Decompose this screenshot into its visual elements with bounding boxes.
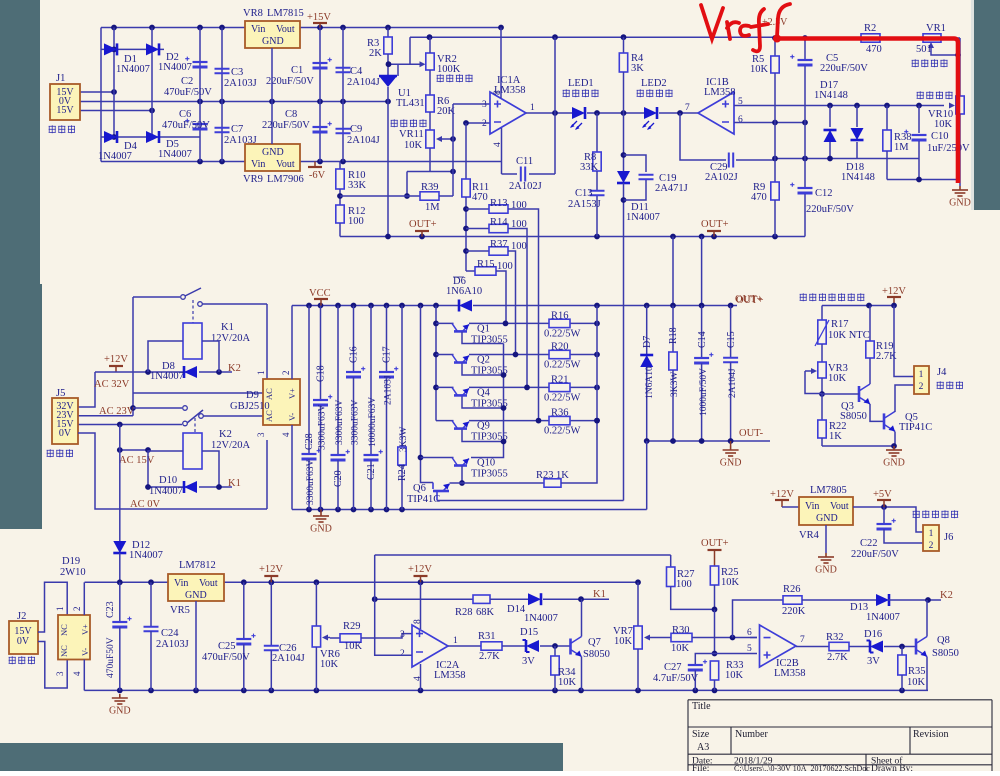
wire Q5 collector to J4 bbox=[895, 385, 914, 412]
svg-text:VR8: VR8 bbox=[243, 8, 263, 19]
resistor R22 bbox=[821, 394, 823, 420]
label voltage-set (VR1) bbox=[912, 59, 919, 67]
svg-text:10000uF63V: 10000uF63V bbox=[368, 397, 378, 447]
resistor R20 bbox=[549, 350, 570, 358]
resistor R23 bbox=[544, 479, 561, 487]
ground bbox=[886, 446, 902, 456]
op-amp IC1B LM358 bbox=[698, 92, 734, 134]
resistor R21 bbox=[549, 383, 570, 391]
svg-text:1N4007: 1N4007 bbox=[116, 64, 150, 75]
svg-text:0.22/5W: 0.22/5W bbox=[544, 426, 581, 437]
zener D16 bbox=[870, 641, 883, 653]
svg-text:R24: R24 bbox=[397, 464, 408, 481]
resistor R18 bbox=[672, 306, 674, 353]
resistor R33 bbox=[710, 661, 718, 680]
svg-text:2: 2 bbox=[482, 119, 487, 129]
svg-text:2A102J: 2A102J bbox=[705, 172, 738, 183]
wire IC1A pin3 bbox=[453, 103, 490, 105]
svg-text:V-: V- bbox=[80, 648, 90, 656]
title block bbox=[688, 700, 992, 771]
svg-text:+15V: +15V bbox=[307, 12, 331, 23]
regulator VR5 LM7812 bbox=[168, 574, 224, 601]
resistor R9 bbox=[774, 159, 776, 183]
svg-text:1: 1 bbox=[453, 636, 458, 646]
svg-text:10K: 10K bbox=[558, 677, 577, 688]
capacitor C3 bbox=[215, 69, 230, 73]
power -6V bbox=[314, 162, 316, 168]
svg-text:1: 1 bbox=[55, 607, 65, 612]
capacitor C19 bbox=[624, 155, 647, 172]
svg-text:C3: C3 bbox=[231, 67, 243, 78]
svg-text:C14: C14 bbox=[697, 331, 708, 348]
svg-text:R16: R16 bbox=[551, 310, 569, 321]
relay K1 coil bbox=[183, 323, 202, 359]
wire IC1B pin5 row bbox=[734, 105, 944, 107]
wire VR3 wiper bbox=[805, 370, 811, 372]
transistor Q4 TIP3055 bbox=[452, 387, 458, 395]
wire D9 pin3 bbox=[266, 440, 268, 509]
wire IC1A output bbox=[526, 112, 572, 114]
capacitor C27 bbox=[688, 664, 703, 666]
capacitor C26 bbox=[270, 582, 272, 645]
wire J2 15V bracket bbox=[38, 582, 67, 632]
resistor R24 bbox=[401, 306, 403, 448]
wire J1 pin3 bbox=[80, 110, 152, 112]
svg-text:S8050: S8050 bbox=[932, 648, 959, 659]
connector J5 bbox=[52, 398, 78, 444]
svg-text:C1: C1 bbox=[291, 65, 303, 76]
diode D2 bbox=[146, 43, 159, 55]
power OUT+ bbox=[707, 230, 721, 232]
svg-text:C2: C2 bbox=[181, 76, 193, 87]
wire D1-D4 column bbox=[113, 28, 115, 138]
transistor Q1 TIP3055 bbox=[452, 323, 458, 331]
potentiometer VR11 bbox=[426, 130, 434, 148]
capacitor C19 bbox=[639, 175, 654, 179]
svg-text:AC 15V: AC 15V bbox=[119, 455, 155, 466]
wire VR10 wiper bbox=[949, 103, 955, 109]
svg-text:VR11: VR11 bbox=[399, 129, 424, 140]
wire VR11 bottom elbow bbox=[429, 148, 431, 172]
capacitor C1 bbox=[319, 28, 321, 102]
svg-text:C21: C21 bbox=[366, 463, 377, 480]
diode D11 bbox=[617, 171, 630, 183]
capacitor C6 bbox=[193, 123, 208, 125]
svg-text:2A104J: 2A104J bbox=[347, 77, 380, 88]
svg-text:OUT+: OUT+ bbox=[701, 538, 729, 549]
svg-text:Vin: Vin bbox=[805, 501, 819, 512]
svg-text:3300uF63V: 3300uF63V bbox=[335, 399, 345, 445]
potentiometer VR2 bbox=[426, 53, 434, 70]
svg-text:K2: K2 bbox=[219, 429, 232, 440]
wire VR5 gnd bbox=[195, 601, 197, 690]
svg-text:3V: 3V bbox=[522, 656, 535, 667]
relay K2 coil bbox=[183, 433, 202, 469]
resistor R38 bbox=[886, 106, 888, 131]
svg-text:LED1: LED1 bbox=[568, 78, 594, 89]
relay K1 switch bbox=[181, 295, 186, 300]
capacitor C5 bbox=[804, 38, 806, 60]
wire D19 pin4 bbox=[83, 660, 85, 691]
svg-text:R23: R23 bbox=[536, 470, 554, 481]
svg-text:LM358: LM358 bbox=[434, 670, 466, 681]
svg-text:Vin: Vin bbox=[251, 24, 265, 35]
wire J5 15V bbox=[78, 424, 182, 426]
svg-text:TIP41C: TIP41C bbox=[899, 422, 932, 433]
svg-text:OUT+: OUT+ bbox=[701, 219, 729, 230]
wire U1 anode to OUT+ bbox=[387, 87, 389, 237]
svg-text:100: 100 bbox=[676, 579, 692, 590]
thermistor R17 bbox=[821, 306, 823, 321]
op-amp IC2B LM358 bbox=[760, 625, 797, 667]
svg-text:1K: 1K bbox=[829, 431, 842, 442]
svg-text:GND: GND bbox=[720, 458, 742, 469]
wire J4 pin1 bbox=[894, 306, 914, 377]
resistor R32 bbox=[829, 642, 849, 650]
svg-text:R29: R29 bbox=[343, 621, 361, 632]
svg-text:10K: 10K bbox=[404, 140, 423, 151]
svg-text:1N4007: 1N4007 bbox=[149, 486, 183, 497]
wire J5 0V path bbox=[78, 433, 267, 509]
wire VCC drop to collectors bbox=[435, 306, 437, 421]
potentiometer VR6 bbox=[315, 582, 317, 626]
wire D12 column bbox=[119, 425, 121, 542]
svg-text:100: 100 bbox=[511, 200, 527, 211]
capacitor C2 bbox=[199, 28, 201, 102]
svg-text:3K3W: 3K3W bbox=[670, 372, 680, 397]
svg-text:R20: R20 bbox=[551, 342, 569, 353]
svg-text:220uF/50V: 220uF/50V bbox=[820, 63, 868, 74]
wire R5 bottom bbox=[774, 123, 776, 159]
capacitor C22 bbox=[883, 507, 885, 524]
svg-text:2: 2 bbox=[400, 649, 405, 659]
capacitor C13 bbox=[596, 171, 598, 190]
svg-text:C18: C18 bbox=[316, 365, 327, 382]
rail OUT- bbox=[647, 440, 770, 442]
wire J5 23V bbox=[78, 415, 133, 417]
wire VR11 wiper bbox=[441, 138, 453, 140]
capacitor C17 bbox=[386, 306, 388, 373]
svg-text:1N4007: 1N4007 bbox=[129, 550, 163, 561]
svg-text:1: 1 bbox=[929, 529, 934, 539]
capacitor C22 bbox=[877, 523, 892, 525]
svg-text:10K NTC: 10K NTC bbox=[828, 330, 870, 341]
wire AC32V column bbox=[132, 297, 134, 416]
svg-text:GND: GND bbox=[949, 198, 971, 209]
svg-text:Title: Title bbox=[692, 701, 711, 712]
label transformer (J1) bbox=[49, 125, 56, 133]
wire relay D10 row bbox=[148, 486, 186, 488]
svg-text:220K: 220K bbox=[782, 606, 806, 617]
svg-text:C8: C8 bbox=[285, 109, 297, 120]
svg-text:1: 1 bbox=[530, 103, 535, 113]
svg-text:10K: 10K bbox=[344, 641, 363, 652]
svg-text:2: 2 bbox=[281, 371, 291, 376]
power +12V VR5 out bbox=[270, 576, 272, 582]
svg-text:-6V: -6V bbox=[309, 170, 326, 181]
svg-text:33K: 33K bbox=[348, 180, 367, 191]
svg-text:100K: 100K bbox=[437, 64, 461, 75]
resistor R8 bbox=[596, 113, 598, 152]
svg-text:D9: D9 bbox=[246, 390, 259, 401]
capacitor C7 bbox=[215, 128, 230, 132]
capacitor C28 bbox=[308, 306, 310, 455]
svg-text:Q10: Q10 bbox=[477, 458, 495, 469]
resistor R5 bbox=[774, 38, 776, 56]
ground bbox=[313, 512, 329, 522]
wire IC2A pin2 path bbox=[375, 599, 412, 655]
wire J1 pin1 bbox=[80, 91, 114, 93]
wire VR1 wiper bbox=[931, 47, 957, 55]
svg-text:15V: 15V bbox=[56, 105, 74, 116]
label fan (J4) bbox=[937, 381, 944, 389]
wire IC2B output bbox=[796, 646, 829, 648]
capacitor C11 bbox=[521, 167, 525, 182]
wire Q10 base bbox=[461, 466, 463, 483]
svg-text:2W10: 2W10 bbox=[60, 567, 86, 578]
svg-text:C22: C22 bbox=[860, 538, 878, 549]
capacitor C7 bbox=[221, 102, 223, 162]
svg-text:100: 100 bbox=[497, 261, 513, 272]
resistor R3 bbox=[387, 28, 389, 38]
resistor R2 bbox=[861, 34, 880, 42]
svg-text:C13: C13 bbox=[575, 188, 593, 199]
resistor R27 bbox=[667, 567, 675, 587]
wire left column bbox=[100, 28, 102, 162]
diode D7 bbox=[646, 306, 648, 356]
capacitor C6 bbox=[199, 102, 201, 162]
svg-text:Q7: Q7 bbox=[588, 637, 601, 648]
svg-text:GND: GND bbox=[262, 147, 284, 158]
svg-text:D16: D16 bbox=[864, 629, 882, 640]
svg-text:C28: C28 bbox=[304, 433, 315, 450]
resistor R11 bbox=[465, 123, 467, 179]
capacitor C29 bbox=[729, 153, 733, 168]
desktop background bottom strip bbox=[0, 743, 563, 771]
svg-text:10K: 10K bbox=[320, 659, 339, 670]
op-amp IC1A LM358 bbox=[490, 92, 526, 134]
capacitor C14 bbox=[694, 357, 709, 359]
resistor R13 bbox=[466, 208, 489, 210]
svg-text:File:: File: bbox=[692, 764, 709, 771]
diode D4 bbox=[104, 131, 117, 143]
svg-text:Size: Size bbox=[692, 729, 710, 740]
svg-text:+12V: +12V bbox=[882, 286, 906, 297]
svg-text:1uF/250V: 1uF/250V bbox=[927, 143, 970, 154]
wire J2 0V bracket bbox=[38, 642, 67, 689]
capacitor C23 bbox=[112, 621, 127, 623]
resistor R36 bbox=[549, 416, 570, 424]
wire VR7 wiper bbox=[648, 637, 654, 639]
svg-text:R36: R36 bbox=[551, 408, 569, 419]
svg-text:K1: K1 bbox=[593, 589, 606, 600]
transistor Q2 TIP3055 bbox=[452, 355, 458, 363]
resistor R34 bbox=[554, 646, 556, 656]
potentiometer VR10 bbox=[956, 96, 964, 114]
svg-text:C:\Users\..\0-30V 10A_20170622: C:\Users\..\0-30V 10A_20170622.SchDoc bbox=[734, 764, 870, 771]
wire R23 to OUT+ drop bbox=[561, 421, 597, 483]
shunt ref U1 TL431 bbox=[379, 75, 397, 78]
svg-text:Q8: Q8 bbox=[937, 635, 950, 646]
svg-text:4.7uF/50V: 4.7uF/50V bbox=[653, 673, 699, 684]
wire VR8 GND stub bbox=[271, 48, 273, 102]
transistor Q5 TIP41C bbox=[883, 413, 886, 429]
wire Q6 collector bbox=[437, 500, 624, 502]
wire IC1A pin4 bbox=[501, 128, 503, 174]
svg-text:0.22/5W: 0.22/5W bbox=[544, 328, 581, 339]
ground OUT- bbox=[730, 441, 732, 446]
svg-text:4: 4 bbox=[413, 676, 423, 681]
svg-text:LED2: LED2 bbox=[641, 78, 667, 89]
rail -6V bottom bbox=[101, 161, 245, 163]
wire emitter row Q4 bbox=[436, 386, 454, 388]
rail GND bottom (cap bank) bbox=[292, 509, 647, 511]
capacitor C12 bbox=[804, 159, 806, 188]
wire Q8 emitter bbox=[926, 657, 928, 691]
wire LED2 to IC1B bbox=[659, 112, 698, 114]
capacitor C10 bbox=[912, 134, 927, 136]
svg-text:V+: V+ bbox=[287, 388, 297, 399]
wire diode row top bbox=[101, 48, 164, 50]
potentiometer VR1 bbox=[923, 34, 941, 42]
svg-text:4: 4 bbox=[281, 432, 291, 437]
svg-text:2: 2 bbox=[919, 382, 924, 392]
svg-text:Vin: Vin bbox=[174, 578, 188, 589]
power OUT+ bottom bbox=[714, 550, 716, 566]
diode D17 bbox=[824, 130, 837, 142]
LED LED2 bbox=[644, 107, 657, 119]
svg-text:3V: 3V bbox=[867, 656, 880, 667]
svg-text:C10: C10 bbox=[931, 131, 949, 142]
svg-text:AC: AC bbox=[264, 388, 274, 400]
diode D18 bbox=[856, 106, 858, 128]
resistor R14 bbox=[466, 228, 489, 230]
wire fan gnd row bbox=[822, 445, 895, 447]
capacitor C21 bbox=[370, 306, 372, 456]
svg-text:3300uF63V: 3300uF63V bbox=[350, 399, 360, 445]
svg-text:Vout: Vout bbox=[276, 159, 295, 170]
svg-text:J6: J6 bbox=[944, 532, 953, 543]
svg-text:Q1: Q1 bbox=[477, 323, 490, 334]
wire K2 coil right bbox=[202, 451, 219, 487]
svg-text:1N4007: 1N4007 bbox=[866, 612, 900, 623]
svg-text:2K: 2K bbox=[369, 48, 382, 59]
diode D18 bbox=[851, 128, 864, 140]
zener D16 bbox=[849, 646, 870, 648]
svg-text:VR1: VR1 bbox=[926, 23, 946, 34]
svg-text:3: 3 bbox=[256, 432, 266, 437]
svg-text:12V/20A: 12V/20A bbox=[211, 440, 251, 451]
rail VCC / OUT+ bbox=[292, 305, 459, 307]
svg-text:GND: GND bbox=[109, 706, 131, 717]
svg-text:VR5: VR5 bbox=[170, 605, 190, 616]
diode D14 bbox=[528, 593, 541, 605]
svg-text:Drawn By:: Drawn By: bbox=[871, 764, 913, 771]
capacitor C24 bbox=[144, 627, 159, 631]
capacitor C1 bbox=[313, 62, 328, 64]
wire U1 ref bbox=[397, 64, 399, 76]
svg-text:Revision: Revision bbox=[913, 729, 949, 740]
power OUT+ left bbox=[421, 231, 423, 237]
wire D19 pin2 bbox=[83, 582, 85, 615]
transistor Q10 TIP3055 bbox=[452, 458, 458, 466]
wire IC1B pin7 feedback bbox=[680, 113, 726, 160]
op-amp IC2A LM358 bbox=[412, 625, 448, 667]
svg-text:2A153J: 2A153J bbox=[568, 199, 601, 210]
svg-text:C4: C4 bbox=[350, 66, 363, 77]
wire emitter row Q9 bbox=[436, 420, 454, 422]
svg-text:0.22/5W: 0.22/5W bbox=[544, 360, 581, 371]
wire emitter row Q1 bbox=[436, 322, 454, 324]
diode D13 bbox=[876, 594, 889, 606]
svg-text:10K: 10K bbox=[750, 64, 769, 75]
wire base bus bbox=[462, 332, 504, 344]
svg-text:R30: R30 bbox=[672, 625, 690, 636]
svg-text:2: 2 bbox=[72, 607, 82, 612]
svg-text:C24: C24 bbox=[161, 628, 179, 639]
svg-text:+12V: +12V bbox=[408, 564, 432, 575]
resistor R35 bbox=[901, 647, 903, 656]
svg-text:C9: C9 bbox=[350, 124, 362, 135]
svg-text:10K: 10K bbox=[934, 119, 953, 130]
regulator VR8 LM7815 bbox=[245, 21, 300, 48]
wire Q7 collector bbox=[581, 599, 583, 636]
capacitor C20 bbox=[337, 306, 339, 456]
capacitor C8 bbox=[319, 102, 321, 162]
svg-text:1000uF/50V: 1000uF/50V bbox=[699, 368, 709, 416]
capacitor C10 bbox=[918, 106, 920, 134]
wire Q7 emitter bbox=[581, 657, 583, 691]
wire diode row bottom bbox=[101, 136, 200, 138]
wire LED1 to LED2 bbox=[587, 112, 644, 114]
ground bbox=[952, 186, 968, 196]
wire K2 coil left bbox=[148, 451, 183, 487]
svg-text:D10: D10 bbox=[159, 475, 177, 486]
svg-text:GND: GND bbox=[185, 590, 207, 601]
svg-text:10K: 10K bbox=[671, 643, 690, 654]
connector J1 bbox=[50, 84, 80, 120]
diode D11 bbox=[623, 113, 625, 171]
svg-text:33K: 33K bbox=[580, 162, 599, 173]
wire IC1A pin2 bbox=[466, 122, 490, 124]
wire VR9 GND stub bbox=[271, 102, 273, 145]
resistor R28 bbox=[473, 595, 490, 603]
resistor R37 bbox=[466, 250, 489, 252]
ground bbox=[112, 694, 128, 704]
svg-text:Vout: Vout bbox=[830, 501, 849, 512]
diode D8 bbox=[184, 366, 197, 378]
capacitor C24 bbox=[150, 582, 152, 626]
svg-text:1N6A10: 1N6A10 bbox=[645, 366, 655, 399]
bridge rectifier D9 GBJ2510 bbox=[263, 379, 300, 425]
capacitor C3 bbox=[221, 28, 223, 102]
svg-text:3: 3 bbox=[55, 671, 65, 676]
svg-text:J4: J4 bbox=[937, 367, 947, 378]
svg-text:1N4148: 1N4148 bbox=[841, 172, 875, 183]
zener D15 bbox=[502, 645, 526, 647]
resistor R15 bbox=[466, 270, 475, 272]
svg-text:Q2: Q2 bbox=[477, 355, 490, 366]
svg-text:470uF/50V: 470uF/50V bbox=[202, 652, 250, 663]
label digital meter (J6) bbox=[913, 510, 920, 518]
svg-text:R39: R39 bbox=[421, 182, 439, 193]
svg-text:+12V: +12V bbox=[770, 489, 794, 500]
svg-text:C12: C12 bbox=[815, 188, 833, 199]
power +12V relay bbox=[115, 366, 117, 372]
svg-text:D15: D15 bbox=[520, 627, 538, 638]
svg-text:LM7812: LM7812 bbox=[179, 560, 216, 571]
power +12V VR4 bbox=[781, 500, 783, 507]
